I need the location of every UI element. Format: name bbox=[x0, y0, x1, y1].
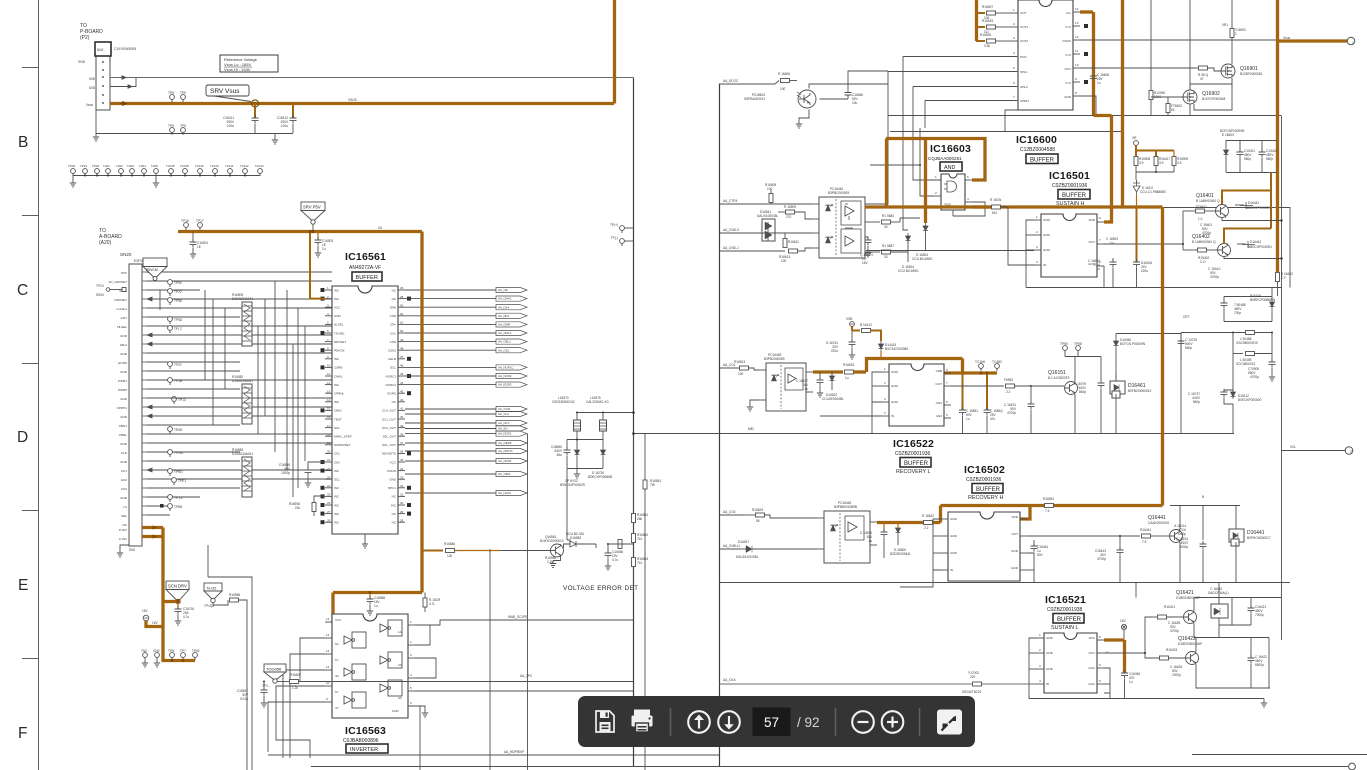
svg-text:31: 31 bbox=[400, 493, 404, 497]
IC16502 pins bbox=[941, 519, 1027, 570]
svg-text:EGRS: EGRS bbox=[387, 392, 396, 396]
svg-text:BXC34C000085: BXC34C000085 bbox=[885, 347, 908, 351]
IC16521 title bbox=[1045, 594, 1086, 631]
capacitor C16568 bbox=[279, 462, 325, 487]
test point TPRD bbox=[168, 469, 184, 476]
svg-text:R16441: R16441 bbox=[1140, 528, 1151, 532]
svg-text:D: D bbox=[17, 429, 28, 446]
capacitor C16411 bbox=[223, 103, 258, 133]
note reference voltage box bbox=[220, 55, 278, 72]
wire orange 5V rail bbox=[178, 226, 422, 232]
wire orange AND drop bbox=[924, 139, 927, 224]
svg-text:OUT: OUT bbox=[1088, 651, 1095, 655]
wire L block to errordet bbox=[567, 469, 570, 545]
svg-text:7.5: 7.5 bbox=[1045, 509, 1050, 513]
svg-text:OUT: OUT bbox=[1011, 532, 1018, 536]
IC16561 right pins bbox=[382, 286, 411, 524]
svg-text:14: 14 bbox=[1075, 7, 1079, 11]
svg-text:F: F bbox=[18, 725, 27, 742]
svg-text:GN2: GN2 bbox=[153, 649, 160, 653]
capacitor C16547 bbox=[796, 372, 824, 397]
svg-text:SSGA/TN221: SSGA/TN221 bbox=[962, 690, 982, 694]
wire Q16401 orange c bbox=[1222, 173, 1271, 229]
svg-text:33: 33 bbox=[884, 225, 888, 229]
IC16600 pin labels bbox=[1013, 7, 1079, 103]
wire PC16603 output up bbox=[809, 71, 888, 89]
diode D16731 bbox=[588, 447, 612, 479]
svg-text:1.0: 1.0 bbox=[1198, 217, 1203, 221]
svg-text:28: 28 bbox=[400, 295, 404, 299]
svg-text:R1 5684: R1 5684 bbox=[882, 214, 894, 218]
svg-text:26: 26 bbox=[327, 501, 331, 505]
svg-text:T203: T203 bbox=[127, 164, 134, 168]
svg-text:44: 44 bbox=[400, 381, 404, 385]
svg-text:1.2k: 1.2k bbox=[292, 686, 298, 690]
svg-text:VR1: VR1 bbox=[1222, 23, 1228, 27]
IC16502 pin labels bbox=[950, 515, 1019, 572]
icon zoom in bbox=[882, 711, 904, 733]
resistor L50488 bbox=[1236, 331, 1258, 346]
svg-text:220u: 220u bbox=[831, 349, 838, 353]
svg-text:GND: GND bbox=[120, 496, 128, 500]
svg-text:AA_CMA1: AA_CMA1 bbox=[498, 297, 512, 301]
svg-text:1: 1 bbox=[1235, 32, 1237, 36]
PC16461 pins bbox=[812, 204, 872, 252]
svg-text:100: 100 bbox=[767, 187, 773, 191]
svg-text:CNT2: CNT2 bbox=[1020, 39, 1028, 43]
svg-text:2.2: 2.2 bbox=[1006, 390, 1011, 394]
IC16521 pins bbox=[1037, 638, 1104, 684]
svg-text:CSN: CSN bbox=[390, 340, 396, 344]
svg-text:16: 16 bbox=[327, 415, 331, 419]
test point TP50 bbox=[168, 280, 182, 287]
svg-text:4.7L: 4.7L bbox=[429, 602, 435, 606]
svg-text:100u: 100u bbox=[227, 124, 234, 128]
ground TN2 bbox=[141, 649, 148, 667]
svg-text:T202: T202 bbox=[116, 164, 123, 168]
svg-text:1u: 1u bbox=[804, 387, 808, 391]
srv marker N.O2 bbox=[204, 583, 222, 608]
icon print bbox=[632, 710, 653, 733]
svg-text:IN3: IN3 bbox=[334, 469, 339, 473]
svg-text:1: 1 bbox=[1036, 215, 1038, 219]
svg-text:GND: GND bbox=[1064, 95, 1072, 99]
svg-text:CBA1: CBA1 bbox=[334, 409, 342, 413]
svg-text:TP82: TP82 bbox=[192, 649, 200, 653]
svg-text:T201: T201 bbox=[103, 164, 110, 168]
svg-text:3300p: 3300p bbox=[1179, 545, 1188, 549]
wire IC16522 in bbox=[820, 415, 882, 417]
svg-text:D16441: D16441 bbox=[1248, 201, 1259, 205]
svg-text:MID: MID bbox=[89, 86, 96, 90]
svg-text:R16423: R16423 bbox=[1166, 648, 1177, 652]
svg-text:GND: GND bbox=[120, 334, 128, 338]
svg-text:SS94: SS94 bbox=[96, 293, 104, 297]
page number box bbox=[753, 708, 791, 737]
node AA_CO4 bbox=[720, 510, 746, 515]
row label C bbox=[17, 282, 28, 299]
svg-text:BUFFER: BUFFER bbox=[1057, 617, 1082, 623]
svg-text:B0FBCN000043: B0FBCN000043 bbox=[1128, 389, 1151, 393]
capacitor C16551 bbox=[959, 373, 978, 434]
wire orange y115 link bbox=[1094, 114, 1112, 117]
wire orange IC16521 vdd bbox=[1104, 640, 1125, 673]
op-amp U IC16561 body bbox=[332, 286, 398, 534]
svg-text:HLSEL: HLSEL bbox=[334, 323, 344, 327]
row tick C bbox=[22, 215, 38, 217]
wire vertical mid bbox=[208, 545, 252, 770]
svg-text:GND: GND bbox=[950, 517, 958, 521]
svg-text:9: 9 bbox=[1075, 77, 1077, 81]
svg-text:NORC1: NORC1 bbox=[385, 374, 396, 378]
square node bbox=[160, 504, 164, 508]
svg-text:56: 56 bbox=[756, 519, 760, 523]
wire orange vsus top bbox=[1276, 0, 1279, 272]
svg-text:INC: INC bbox=[334, 503, 340, 507]
IC16522 title bbox=[893, 438, 934, 475]
svg-text:R1 5687: R1 5687 bbox=[882, 244, 894, 248]
wire orange CNT bus bbox=[975, 0, 978, 41]
wire IC16521 left loop bbox=[1029, 638, 1264, 699]
svg-text:BUFFER: BUFFER bbox=[976, 487, 1001, 493]
wire rail y332 bbox=[1181, 332, 1273, 334]
svg-text:2200p: 2200p bbox=[1172, 673, 1181, 677]
svg-text:VCC: VCC bbox=[334, 306, 341, 310]
IC16603 pins bbox=[934, 180, 972, 216]
svg-text:B3PBC000009: B3PBC000009 bbox=[828, 191, 849, 195]
svg-text:7W: 7W bbox=[650, 483, 655, 487]
svg-text:3: 3 bbox=[1039, 664, 1041, 668]
wire orange out TP branch bbox=[963, 371, 998, 374]
svg-text:TN-SEL: TN-SEL bbox=[334, 331, 345, 335]
resistor R16441 bbox=[1027, 528, 1162, 544]
svg-text:8: 8 bbox=[1099, 216, 1101, 220]
svg-text:EN6: EN6 bbox=[390, 306, 396, 310]
svg-text:AN49272A-VF: AN49272A-VF bbox=[349, 265, 381, 271]
resistor R16813 bbox=[734, 360, 759, 376]
svg-text:B0NC34P000029: B0NC34P000029 bbox=[560, 483, 585, 487]
svg-text:CSN2: CSN2 bbox=[388, 349, 396, 353]
svg-text:15V: 15V bbox=[152, 621, 159, 625]
svg-text:18: 18 bbox=[327, 432, 331, 436]
svg-text:10u: 10u bbox=[852, 101, 858, 105]
ground GN2 bbox=[153, 649, 160, 667]
resistor network R16583 bbox=[232, 448, 253, 497]
svg-text:TP2Y: TP2Y bbox=[174, 363, 183, 367]
svg-text:TP18: TP18 bbox=[181, 219, 189, 223]
svg-text:50V: 50V bbox=[1037, 553, 1044, 557]
test point TP15 bbox=[168, 495, 183, 502]
connector SN20 bbox=[108, 264, 147, 552]
inverter gate 5 bbox=[380, 652, 402, 668]
svg-text:(A20): (A20) bbox=[99, 240, 112, 246]
svg-text:220: 220 bbox=[970, 675, 976, 679]
svg-text:INC: INC bbox=[334, 495, 340, 499]
wire bottom rail bbox=[311, 755, 1367, 770]
resistor R16613 bbox=[779, 248, 812, 263]
wire vertical 1181 bbox=[1180, 333, 1182, 434]
svg-text:36: 36 bbox=[400, 450, 404, 454]
svg-text:0.01u: 0.01u bbox=[240, 697, 248, 701]
diode D16460 bbox=[1114, 334, 1146, 383]
capacitor C16624 bbox=[860, 237, 873, 265]
wire orange recovery L feed bbox=[867, 359, 963, 374]
resistor R16551 bbox=[1043, 497, 1054, 513]
svg-text:AA_CMR: AA_CMR bbox=[498, 323, 510, 327]
svg-text:1u: 1u bbox=[1110, 241, 1114, 245]
svg-text:ECRS: ECRS bbox=[118, 361, 127, 365]
svg-text:43: 43 bbox=[400, 389, 404, 393]
svg-text:R16533: R16533 bbox=[843, 363, 854, 367]
svg-text:C5G236000242: C5G236000242 bbox=[552, 400, 575, 404]
svg-text:E: E bbox=[18, 577, 28, 594]
svg-text:BUFFER: BUFFER bbox=[1062, 193, 1087, 199]
svg-text:AA_DP4: AA_DP4 bbox=[498, 314, 509, 318]
svg-text:BCFCNP00009N: BCFCNP00009N bbox=[1220, 129, 1245, 133]
IC16603 title bbox=[928, 143, 971, 171]
wire base branch down bbox=[490, 551, 633, 770]
test points TP20-TP243 bbox=[68, 164, 264, 177]
svg-text:CK2: CK2 bbox=[121, 487, 127, 491]
page count bbox=[797, 715, 820, 730]
svg-text:C: C bbox=[17, 282, 28, 299]
svg-text:SN20: SN20 bbox=[120, 252, 132, 257]
svg-text:4A: 4A bbox=[335, 674, 339, 678]
svg-text:SCDRVSET: SCDRVSET bbox=[334, 443, 350, 447]
svg-text:1u: 1u bbox=[868, 539, 872, 543]
IC16502 title bbox=[964, 464, 1005, 501]
wire orange pc463 out bbox=[813, 370, 843, 373]
svg-text:3: 3 bbox=[1013, 36, 1015, 40]
resistor R17002 bbox=[962, 671, 982, 694]
svg-text:26k: 26k bbox=[637, 517, 643, 521]
test point TPB8 bbox=[168, 504, 183, 511]
resistor R16604 bbox=[972, 198, 1002, 215]
svg-text:47: 47 bbox=[400, 355, 404, 359]
svg-text:D16442: D16442 bbox=[1250, 240, 1261, 244]
svg-text:VSUS: VSUS bbox=[348, 98, 357, 102]
svg-text:IN: IN bbox=[950, 568, 953, 572]
test point TP(+) bbox=[610, 223, 634, 233]
transistor Q16901 bbox=[1221, 64, 1263, 78]
wire rail y333 bbox=[1116, 333, 1181, 335]
capacitor C16501 bbox=[190, 232, 209, 259]
svg-text:BZD2E09944L: BZD2E09944L bbox=[890, 552, 911, 556]
diode D16730 bbox=[575, 447, 580, 468]
svg-text:21: 21 bbox=[327, 458, 331, 462]
svg-text:62: 62 bbox=[400, 312, 404, 316]
svg-text:GND: GND bbox=[891, 400, 899, 404]
diode D16732 bbox=[1231, 389, 1262, 402]
ground tp row left bbox=[70, 176, 76, 188]
svg-text:C0ZBZ0001936: C0ZBZ0001936 bbox=[1052, 183, 1088, 189]
row label D bbox=[17, 429, 28, 446]
capacitor D16024 bbox=[1133, 207, 1152, 288]
resistor network R16582 bbox=[232, 375, 253, 424]
svg-text:R16813: R16813 bbox=[734, 360, 745, 364]
svg-text:CAAE0000010: CAAE0000010 bbox=[1148, 521, 1169, 525]
svg-text:GND: GND bbox=[1043, 233, 1051, 237]
svg-text:GAC: GAC bbox=[1088, 682, 1095, 686]
svg-text:4Y: 4Y bbox=[335, 706, 339, 710]
wire orange pc row bbox=[886, 139, 926, 208]
svg-text:VCC: VCC bbox=[335, 618, 342, 622]
svg-text:D16582: D16582 bbox=[570, 536, 581, 540]
svg-text:CCU.C1.P88888X: CCU.C1.P88888X bbox=[1140, 190, 1167, 194]
svg-text:3: 3 bbox=[1036, 245, 1038, 249]
IC16600 body bbox=[1018, 0, 1073, 110]
capacitor C16066 bbox=[605, 543, 624, 570]
resistor R16609 bbox=[778, 205, 812, 219]
svg-text:SCL: SCL bbox=[334, 478, 340, 482]
icon page up bbox=[688, 711, 710, 733]
svg-text:7.5: 7.5 bbox=[1142, 540, 1147, 544]
svg-text:11: 11 bbox=[326, 665, 329, 669]
resistor R16822 bbox=[922, 514, 934, 530]
svg-text:29: 29 bbox=[400, 286, 404, 290]
IC16563 title bbox=[343, 725, 388, 753]
svg-text:63: 63 bbox=[400, 303, 404, 307]
svg-text:DRVSET: DRVSET bbox=[115, 298, 128, 302]
svg-text:TP1...: TP1... bbox=[262, 684, 271, 688]
svg-text:GND: GND bbox=[120, 415, 128, 419]
svg-text:B0ECKP000000: B0ECKP000000 bbox=[1238, 398, 1261, 402]
svg-text:(P2): (P2) bbox=[80, 35, 90, 41]
test point TC16H bbox=[975, 360, 986, 374]
toolbar separator 2 bbox=[835, 708, 837, 736]
svg-text:17: 17 bbox=[327, 424, 331, 428]
svg-text:6800p: 6800p bbox=[1255, 663, 1264, 667]
svg-text:TP5D: TP5D bbox=[174, 318, 183, 322]
transistor Q16581 bbox=[489, 535, 564, 568]
ground IC16563 bbox=[408, 706, 428, 717]
svg-text:INVERTER: INVERTER bbox=[350, 747, 378, 753]
svg-text:29: 29 bbox=[400, 510, 404, 514]
test point TP1B bbox=[168, 378, 182, 385]
svg-text:34: 34 bbox=[400, 467, 404, 471]
svg-text:NN2: NN2 bbox=[97, 48, 104, 52]
wire P15V orange bbox=[142, 526, 163, 530]
wire Q16422 collector rail bbox=[1196, 638, 1269, 689]
wire and inputs bbox=[870, 128, 934, 196]
svg-text:560p: 560p bbox=[1193, 400, 1200, 404]
svg-text:T204: T204 bbox=[139, 164, 146, 168]
wire gate feedback right bbox=[415, 625, 436, 678]
svg-text:D1BE00B0CV6P: D1BE00B0CV6P bbox=[1176, 596, 1200, 600]
svg-text:BBDCHP000091: BBDCHP000091 bbox=[1248, 245, 1272, 249]
callout SRV Vsus bbox=[206, 85, 251, 102]
IC16522 body bbox=[889, 364, 944, 426]
svg-text:R16551: R16551 bbox=[1043, 497, 1054, 501]
node AA_SCOC bbox=[720, 79, 776, 84]
IC16522 pins bbox=[882, 372, 951, 418]
svg-text:3.9: 3.9 bbox=[1159, 161, 1164, 165]
capacitor C16761 bbox=[826, 331, 856, 360]
svg-text:T2138: T2138 bbox=[180, 164, 189, 168]
svg-text:DADCF04A(L): DADCF04A(L) bbox=[1208, 591, 1229, 595]
label CR7 bbox=[1183, 315, 1190, 319]
diode D16504 bbox=[912, 223, 933, 261]
diode D16500a bbox=[736, 540, 817, 559]
svg-text:SC_DRVSET: SC_DRVSET bbox=[108, 280, 127, 284]
capacitor C16608 bbox=[1090, 73, 1109, 85]
svg-text:7: 7 bbox=[1013, 95, 1015, 99]
wire rail y287 sustain bbox=[1026, 287, 1282, 289]
ground rail bbox=[272, 134, 278, 145]
resistor R16909 bbox=[1160, 151, 1188, 173]
svg-text:5: 5 bbox=[1013, 66, 1015, 70]
svg-text:4700p: 4700p bbox=[1007, 411, 1016, 415]
svg-text:4700p: 4700p bbox=[1250, 375, 1259, 379]
wire MID box edge vertical bbox=[633, 78, 635, 767]
capacitor C16660 bbox=[820, 86, 864, 105]
diode pair D16541 bbox=[757, 210, 778, 241]
wire MID jog bbox=[110, 78, 136, 89]
svg-text:AA_HDP900P: AA_HDP900P bbox=[504, 750, 524, 754]
resistor R16556 bbox=[213, 593, 247, 770]
svg-text:13: 13 bbox=[326, 633, 330, 637]
svg-text:GHD: GHD bbox=[1046, 667, 1054, 671]
svg-text:AA_OER5: AA_OER5 bbox=[498, 441, 512, 445]
wire orange down to TP row bbox=[163, 602, 195, 661]
svg-text:220u: 220u bbox=[1141, 269, 1148, 273]
resistor R16575 bbox=[423, 593, 441, 613]
svg-text:8: 8 bbox=[1099, 635, 1101, 639]
resistor R16417 bbox=[1154, 157, 1170, 173]
svg-text:AA_CMLT1: AA_CMLT1 bbox=[498, 449, 513, 453]
wire IC16600 pin7 run bbox=[925, 101, 1016, 129]
svg-text:TP(+): TP(+) bbox=[610, 223, 618, 227]
vertical distribution wires bbox=[160, 281, 298, 488]
marker X sym bbox=[1120, 619, 1127, 640]
svg-text:270: 270 bbox=[786, 215, 792, 219]
resistor R16819 bbox=[745, 508, 817, 523]
svg-text:P5V: P5V bbox=[121, 271, 128, 275]
svg-text:GND: GND bbox=[120, 370, 128, 374]
svg-text:GND: GND bbox=[389, 478, 397, 482]
IC16521 body bbox=[1044, 633, 1097, 693]
svg-text:GND: GND bbox=[392, 709, 400, 713]
wire 15V rail orange bbox=[161, 528, 164, 602]
svg-text:SCL: SCL bbox=[390, 366, 396, 370]
svg-text:OUT: OUT bbox=[1088, 240, 1095, 244]
svg-text:6: 6 bbox=[946, 400, 948, 404]
svg-text:T2139: T2139 bbox=[195, 164, 204, 168]
svg-text:AA_OEL1: AA_OEL1 bbox=[498, 340, 511, 344]
svg-text:GND: GND bbox=[120, 397, 128, 401]
resistor R16533 bbox=[843, 363, 866, 380]
test point TP17 bbox=[196, 219, 204, 230]
svg-text:B 1ABH00061 Q: B 1ABH00061 Q bbox=[1196, 199, 1220, 203]
svg-text:GK2: GK2 bbox=[121, 478, 127, 482]
node SRV Vsus ring bbox=[251, 100, 258, 107]
svg-text:1u: 1u bbox=[845, 376, 849, 380]
PC16462 pins bbox=[817, 518, 877, 549]
wire orange pc462 out bbox=[877, 521, 941, 524]
svg-text:SHL2: SHL2 bbox=[1020, 85, 1028, 89]
svg-text:CNT1: CNT1 bbox=[1020, 25, 1028, 29]
svg-text:R 16609: R 16609 bbox=[784, 205, 796, 209]
svg-text:T2142: T2142 bbox=[240, 164, 249, 168]
svg-text:D1SA034A041: D1SA034A041 bbox=[232, 452, 253, 456]
svg-text:13: 13 bbox=[327, 389, 331, 393]
svg-text:48: 48 bbox=[400, 346, 404, 350]
svg-text:B3PBB000089B: B3PBB000089B bbox=[834, 505, 857, 509]
svg-text:5: 5 bbox=[946, 413, 948, 417]
svg-text:4700p: 4700p bbox=[1097, 557, 1106, 561]
svg-text:12: 12 bbox=[326, 649, 330, 653]
svg-text:15V: 15V bbox=[1120, 619, 1127, 623]
